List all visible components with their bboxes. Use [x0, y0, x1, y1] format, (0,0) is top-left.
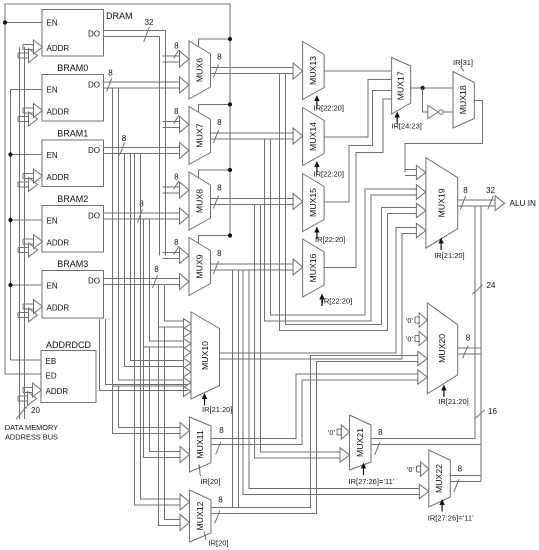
tick MUX12 select	[204, 531, 206, 540]
select arrow MUX20	[443, 389, 445, 397]
bus MUX6 out to MUX13	[211, 68, 295, 74]
svg-text:8: 8	[217, 184, 222, 193]
svg-text:BRAM3: BRAM3	[57, 259, 88, 269]
svg-text:IR[20]: IR[20]	[200, 477, 220, 486]
svg-text:BRAM1: BRAM1	[57, 129, 88, 139]
bus slash 32 ALU	[488, 196, 493, 210]
svg-text:8: 8	[217, 53, 222, 62]
mux MUX8	[189, 172, 211, 230]
bus BRAM2 branch to MUX11 in2	[143, 347, 181, 458]
svg-text:ALU IN: ALU IN	[510, 199, 536, 208]
arrow MUX19 input 3	[416, 203, 426, 217]
svg-text:MUX17: MUX17	[396, 71, 406, 100]
svg-text:32: 32	[486, 186, 495, 195]
bus MUX19 out 8-bit	[458, 200, 497, 206]
arrow MUX6 input 2	[178, 82, 181, 88]
arrow MUX21 input 2	[340, 448, 350, 462]
svg-text:DATA MEMORY: DATA MEMORY	[5, 423, 58, 432]
arrow MUX11 input 2	[178, 452, 181, 458]
wire MUX17 out to MUX18 in1	[411, 87, 453, 89]
svg-text:ADDR: ADDR	[46, 387, 69, 396]
svg-text:ADDRESS BUS: ADDRESS BUS	[5, 433, 58, 442]
svg-text:EN: EN	[47, 86, 58, 95]
bus slash 32	[144, 27, 150, 42]
svg-text:MUX14: MUX14	[308, 122, 318, 151]
bus slash 16	[474, 410, 484, 419]
mux MUX10	[191, 312, 220, 399]
svg-text:8: 8	[218, 496, 223, 505]
wire ED net: left+top border to mux column	[5, 4, 230, 374]
arrow ALU IN	[495, 196, 505, 211]
svg-text:MUX15: MUX15	[308, 188, 318, 217]
mux MUX18	[453, 72, 474, 129]
select arrow MUX14	[316, 166, 318, 174]
junction MUX7 top tap	[228, 102, 232, 106]
svg-text:EN: EN	[47, 151, 58, 160]
bus BRAM0 branch to MUX11 in1	[112, 386, 181, 434]
svg-text:MUX12: MUX12	[195, 501, 205, 530]
arrow MUX22 zero input	[416, 466, 421, 472]
wire MUX22 out riser join	[480, 445, 482, 482]
bus MUX9 branch to merge	[233, 270, 239, 508]
svg-text:ADDR: ADDR	[47, 239, 70, 248]
arrow MUX10 input 3	[184, 370, 186, 374]
arrow MUX10 input 2	[184, 350, 186, 354]
mux MUX22	[429, 450, 451, 507]
svg-text:MUX18: MUX18	[458, 85, 468, 114]
bus slash 8 MUX6 in1	[174, 50, 179, 58]
arrow MUX19 input 2	[416, 185, 426, 199]
wire BRAM0 EN	[11, 89, 43, 91]
select arrow MUX21	[363, 467, 365, 475]
bus MUX6 branch loop to MUX19 in3	[279, 74, 417, 331]
svg-text:IR[27:26]=’11’: IR[27:26]=’11’	[349, 477, 395, 486]
bus slash 8 MUX8 in1	[174, 181, 179, 189]
select arrow MUX22	[441, 504, 443, 512]
bus slash 8 MUX20 out	[463, 346, 468, 359]
bus MUX8 out to MUX15	[211, 199, 295, 205]
svg-text:MUX8: MUX8	[195, 189, 205, 213]
wire to inverter	[423, 88, 428, 112]
bus DRAM DO 32-bit	[104, 30, 166, 255]
bus MUX10 out to MUX19 in4	[220, 228, 418, 360]
bus MUX9 out to MUX16	[211, 264, 295, 270]
wire BRAM2 EN	[11, 219, 43, 221]
wire inverter out to MUX18 in2	[443, 111, 453, 113]
svg-text:IR[31]: IR[31]	[453, 58, 473, 67]
bus slash 8 BRAM2	[137, 210, 142, 223]
bus MUX11 out to MUX20 in4	[211, 374, 419, 445]
svg-text:EB: EB	[46, 357, 57, 366]
bus slash 8 BRAM0	[107, 79, 112, 92]
svg-text:IR[22:20]: IR[22:20]	[322, 297, 352, 306]
arrow MUX9 input 2	[178, 279, 181, 285]
mux MUX17	[392, 58, 411, 115]
svg-text:ADDR: ADDR	[47, 44, 70, 53]
arrow MUX8 input 2	[178, 213, 181, 219]
bus BRAM2 DO branch down to MUX10 in2	[143, 219, 184, 347]
svg-text:MUX20: MUX20	[437, 334, 447, 363]
bus slash 8 MUX9 in1	[174, 246, 179, 254]
svg-text:MUX13: MUX13	[308, 56, 318, 85]
svg-text:8: 8	[174, 42, 179, 51]
wire EB net vertical	[10, 90, 12, 361]
svg-text:MUX6: MUX6	[195, 58, 205, 82]
select arrow MUX13	[316, 100, 318, 108]
svg-text:IR[21:20]: IR[21:20]	[438, 397, 468, 406]
mux MUX13	[303, 42, 325, 100]
svg-text:32: 32	[145, 18, 154, 27]
junction BRAM2 EN	[8, 218, 12, 222]
bus slash 8 MUX22 out	[454, 479, 459, 492]
svg-text:ADDR: ADDR	[47, 173, 70, 182]
bus slash 8 MUX11 out	[216, 442, 221, 455]
junction MUX6 top tap	[228, 37, 232, 41]
bus MUX7 out to MUX14	[211, 133, 295, 139]
memory block BRAM2	[42, 206, 104, 253]
svg-text:DO: DO	[88, 212, 100, 221]
mux MUX19	[426, 158, 458, 248]
bus DRAM byte to MUX6 in1	[163, 56, 181, 62]
mux MUX20	[427, 303, 457, 394]
mux MUX14	[303, 108, 325, 166]
svg-text:IR[21:20]: IR[21:20]	[202, 405, 232, 414]
bus BRAM3 branch to MUX12 in2	[158, 327, 181, 526]
junction MUX9 top tap	[228, 233, 232, 237]
select arrow MUX17	[396, 116, 398, 124]
svg-text:ADDR: ADDR	[47, 304, 70, 313]
arrow ADDR BRAM3	[18, 312, 29, 317]
arrow MUX20 zero input 2	[415, 336, 420, 342]
bus slash 8 MUX21 out	[375, 442, 380, 455]
wire MUX16 out to MUX17 in4	[325, 99, 392, 268]
svg-text:DO: DO	[88, 277, 100, 286]
arrow MUX22 input 2	[419, 484, 429, 498]
svg-text:ADDR: ADDR	[47, 108, 70, 117]
bus slash 24	[472, 285, 482, 294]
bus MUX7 branch loop to MUX19 in2	[264, 139, 417, 321]
bus MUX20 out	[458, 348, 481, 354]
svg-text:ED: ED	[46, 372, 57, 381]
junction MUX17 out	[421, 86, 425, 90]
arrow MUX20 input 4	[418, 370, 428, 384]
svg-text:BRAM2: BRAM2	[57, 194, 88, 204]
svg-text:8: 8	[174, 173, 179, 182]
wire MUX18 out loop to MUX19 in1	[405, 101, 482, 173]
bus MUX12 out to MUX20 in3	[211, 356, 419, 514]
bus MUX9 branch to MUX22 in2	[243, 270, 420, 495]
arrow MUX8 input 1	[176, 187, 181, 193]
arrow MUX9 input 1	[176, 253, 181, 259]
wire BRAM3 EN	[11, 284, 43, 286]
bus DRAM byte to MUX8 in1	[163, 187, 181, 193]
svg-text:IR[21:20]: IR[21:20]	[434, 251, 464, 260]
arrow MUX20 input 3	[418, 351, 428, 365]
svg-text:8: 8	[463, 186, 468, 195]
bus slash 8 MUX12 out	[215, 511, 220, 524]
arrow MUX19 input 4	[416, 223, 426, 237]
mux MUX7	[189, 107, 211, 165]
bus DRAM byte to MUX9 in1	[163, 253, 181, 259]
svg-text:8: 8	[154, 265, 159, 274]
arrow ADDR BRAM1	[18, 182, 29, 187]
mux MUX21	[350, 415, 372, 470]
select arrow MUX16	[321, 298, 323, 306]
select arrow MUX19	[440, 242, 442, 250]
bus slash 8 MUX9 out	[213, 261, 218, 274]
bus slash 8 MUX6 out	[213, 65, 218, 78]
mux MUX6	[189, 41, 211, 99]
svg-text:IR[22:20]: IR[22:20]	[315, 235, 345, 244]
bus slash 8 BRAM3	[152, 275, 157, 288]
wire top input tap MUX7	[199, 104, 230, 112]
arrow MUX21 zero input	[337, 429, 342, 435]
svg-text:8: 8	[174, 107, 179, 116]
bus MUX21 out / 16+24 riser	[371, 206, 481, 444]
svg-text:’0’: ’0’	[406, 316, 414, 325]
junction DRAM EN	[3, 20, 7, 24]
svg-text:MUX21: MUX21	[355, 428, 365, 457]
wire ADDRDCD EB input	[11, 359, 42, 361]
junction BRAM1 EN	[8, 152, 12, 156]
svg-text:MUX22: MUX22	[434, 464, 444, 493]
svg-text:8: 8	[378, 428, 383, 437]
mux MUX9	[189, 238, 211, 296]
arrow MUX14 input	[293, 128, 303, 144]
svg-text:MUX10: MUX10	[200, 341, 210, 370]
arrow ADDR BRAM2	[18, 247, 29, 252]
wire MUX14 out to MUX17 in2	[325, 80, 392, 137]
arrow MUX10 input 4	[184, 389, 186, 393]
mux MUX16	[303, 239, 325, 297]
svg-text:EN: EN	[47, 19, 58, 28]
arrow MUX10 input 1	[184, 330, 186, 334]
svg-text:MUX19: MUX19	[436, 188, 446, 217]
svg-text:BRAM0: BRAM0	[57, 63, 88, 73]
arrow MUX19 input 1	[405, 170, 417, 176]
arrow ADDR DRAM	[18, 53, 29, 58]
svg-text:8: 8	[174, 238, 179, 247]
svg-text:DO: DO	[88, 30, 100, 39]
arrow ADDR ADDRDCD	[18, 396, 28, 401]
junction MUX8 top tap	[228, 168, 232, 172]
junction BRAM3 EN	[8, 283, 12, 287]
tick IR[31]	[461, 67, 465, 72]
arrow MUX15 input	[293, 194, 303, 210]
wire address bus line A	[19, 47, 21, 419]
svg-text:8: 8	[458, 465, 463, 474]
svg-text:8: 8	[219, 426, 224, 435]
bus BRAM0 DO	[104, 82, 182, 88]
memory block BRAM0	[42, 75, 104, 122]
select arrow MUX15	[316, 231, 318, 239]
svg-text:8: 8	[108, 69, 113, 78]
svg-text:DRAM: DRAM	[106, 11, 133, 21]
svg-text:24: 24	[487, 281, 496, 290]
arrow MUX11 input 1	[178, 428, 181, 434]
bus BRAM1 DO	[104, 148, 182, 154]
svg-text:IR[27:26]=’11’: IR[27:26]=’11’	[428, 514, 474, 523]
memory block DRAM	[42, 10, 104, 57]
bus branch to MUX10 slant input	[100, 319, 188, 390]
arrow MUX7 input 1	[176, 122, 181, 128]
svg-text:MUX9: MUX9	[195, 254, 205, 278]
wire address bus line B	[24, 47, 26, 419]
mux MUX15	[303, 174, 325, 232]
arrow ADDR BRAM0	[18, 116, 29, 121]
arrow MUX7 input 2	[178, 148, 181, 154]
bus MUX22 out	[451, 476, 482, 482]
bus BRAM1 DO branch down to MUX10 in3	[125, 154, 185, 367]
bus slash 8 BRAM1	[119, 143, 124, 156]
svg-text:EN: EN	[47, 282, 58, 291]
arrow MUX16 input	[293, 259, 303, 275]
svg-text:DO: DO	[88, 146, 100, 155]
memory block BRAM1	[42, 140, 104, 187]
wire BRAM1 EN	[11, 154, 43, 156]
arrow MUX12 input 2	[178, 520, 181, 526]
block ADDRDCD	[41, 351, 96, 403]
bus slash 8 MUX8 out	[213, 196, 218, 209]
select arrow MUX10	[204, 398, 206, 406]
tick MUX11 select	[199, 464, 200, 476]
wire MUX15 out to MUX17 in3	[325, 91, 392, 202]
wire top input tap MUX8	[199, 170, 230, 178]
arrow MUX13 input	[293, 63, 303, 79]
bus BRAM0 DO branch down to MUX10 in4	[112, 88, 184, 386]
svg-text:MUX11: MUX11	[195, 430, 205, 458]
svg-text:IR[22:20]: IR[22:20]	[314, 104, 344, 113]
wire top input tap MUX6	[199, 39, 230, 47]
bus slash 8 MUX7 in1	[174, 115, 179, 123]
svg-text:ADDRDCD: ADDRDCD	[46, 340, 92, 350]
wire ADDRDCD ED input	[5, 373, 41, 375]
bus slash 8 ALU	[460, 196, 465, 210]
bus MUX8 branch to MUX21 in2	[254, 205, 341, 459]
arrow MUX20 zero input 1	[415, 317, 420, 323]
bus BRAM1 branch to MUX12 in1	[135, 154, 182, 506]
bus BRAM3 DO	[104, 279, 182, 285]
svg-text:’0’: ’0’	[407, 465, 415, 474]
svg-text:DO: DO	[88, 81, 100, 90]
svg-text:MUX16: MUX16	[308, 253, 318, 282]
bus DRAM byte to MUX7 in1	[163, 122, 181, 128]
inverter	[428, 106, 439, 119]
bus BRAM3 DO branch down to MUX10 in1	[158, 285, 184, 328]
arrow MUX12 input 1	[178, 499, 181, 505]
wire top input tap MUX9	[199, 236, 230, 244]
svg-text:8: 8	[217, 118, 222, 127]
svg-text:16: 16	[488, 407, 497, 416]
bus slash 20	[16, 406, 27, 419]
svg-text:EN: EN	[47, 217, 58, 226]
svg-text:’0’: ’0’	[406, 335, 414, 344]
bus slash 8 MUX7 out	[213, 130, 218, 143]
bus BRAM2 DO	[104, 213, 182, 219]
memory block BRAM3	[42, 271, 104, 319]
svg-text:’0’: ’0’	[328, 428, 336, 437]
svg-text:IR[22:20]: IR[22:20]	[314, 170, 344, 179]
mux MUX12	[190, 490, 212, 542]
svg-text:IR[20]: IR[20]	[209, 539, 229, 548]
svg-text:IR[24:23]: IR[24:23]	[391, 122, 421, 131]
svg-text:8: 8	[217, 249, 222, 258]
arrow MUX6 input 1	[176, 56, 181, 62]
svg-text:8: 8	[122, 134, 127, 143]
wire DRAM EN	[5, 22, 42, 24]
wire MUX13 out to MUX17 in1	[325, 70, 392, 72]
svg-text:20: 20	[31, 406, 40, 415]
svg-text:8: 8	[466, 334, 471, 343]
mux MUX11	[190, 417, 212, 472]
svg-text:MUX7: MUX7	[195, 123, 205, 147]
